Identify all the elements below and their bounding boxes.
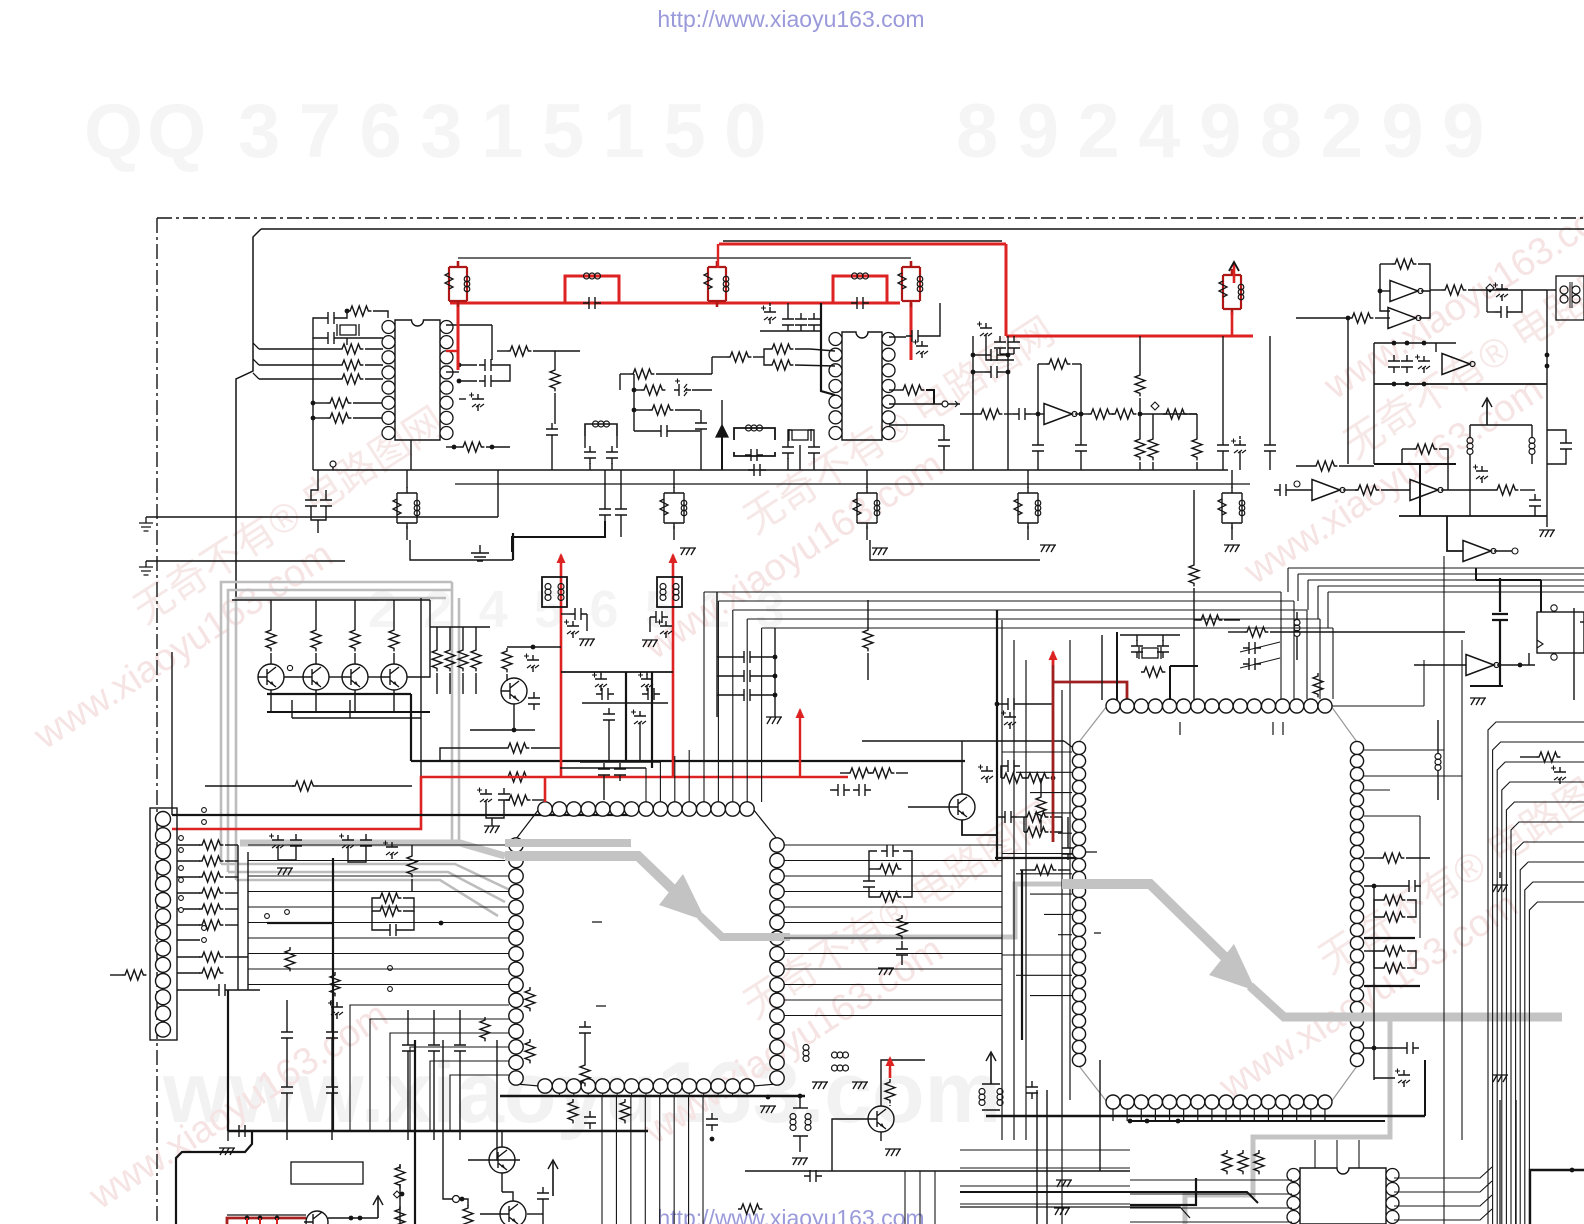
resistor R35: [445, 647, 455, 671]
wire stub: [1140, 1109, 1142, 1121]
wire: [1380, 264, 1390, 311]
capacitor C38: [1529, 494, 1541, 512]
resistor R23: [1355, 485, 1379, 495]
wire: [1534, 512, 1536, 516]
wire: [1040, 778, 1042, 794]
wire bus vert: [1069, 640, 1071, 1100]
resistor R76: [480, 1017, 490, 1041]
wire bold vert3: [414, 1040, 416, 1224]
wire dip right: [1394, 1181, 1492, 1192]
junction: [490, 445, 495, 450]
filter FL7: [406, 487, 408, 529]
wire stub: [674, 756, 676, 802]
wire: [1020, 869, 1032, 871]
junction: [1138, 412, 1143, 417]
junction: [457, 379, 462, 384]
junction: [349, 1216, 354, 1221]
inductor L17: [997, 1089, 1003, 1095]
capacitor C86: [384, 924, 402, 936]
wire fan: [1525, 882, 1584, 1224]
jumper contact: [388, 966, 393, 971]
junction: [275, 1216, 280, 1221]
capacitor C44b: [738, 689, 756, 701]
capacitor C32c: [1234, 440, 1246, 457]
wire stub left U8: [1002, 853, 1072, 855]
wire stub: [1225, 1109, 1227, 1121]
wire stub: [1267, 1109, 1269, 1121]
wire: [1037, 457, 1039, 470]
transistor Q3: [303, 664, 329, 690]
wire bold: [267, 693, 411, 695]
wire: [411, 879, 413, 891]
wire: [353, 417, 383, 419]
wire bus: [248, 922, 509, 924]
wire bold vert: [1021, 870, 1023, 1040]
arrow red 2: [672, 555, 675, 569]
wire: [1499, 872, 1501, 878]
gray bus feed: [240, 843, 505, 856]
wire fan: [1497, 762, 1584, 1224]
wire: [531, 747, 560, 749]
filter FL13: [542, 577, 567, 607]
wire stub: [1112, 1109, 1114, 1121]
resistor R24b: [1163, 409, 1187, 419]
resistor R49: [199, 888, 223, 898]
junction: [1079, 412, 1084, 417]
jumper contact: [202, 808, 207, 813]
capacitor C33: [1495, 306, 1513, 318]
wire: [1469, 455, 1471, 516]
transistor Q6: [501, 678, 527, 704]
wire bus stair: [410, 1047, 509, 1132]
wire stub: [1324, 1109, 1326, 1121]
wire bold: [625, 672, 627, 761]
wire: [446, 446, 460, 448]
capacitor C52: [1002, 760, 1020, 772]
red stub U1 pin3: [446, 350, 459, 352]
jumper contact: [179, 878, 184, 883]
black over red bus: [227, 1214, 306, 1216]
wire: [1050, 817, 1062, 832]
wire: [315, 600, 317, 627]
wire: [943, 452, 945, 470]
capacitor C3: [583, 297, 601, 309]
resistor R31: [311, 627, 321, 651]
wire: [600, 672, 602, 675]
wire: [1407, 951, 1416, 968]
wire bus: [248, 984, 509, 986]
junction: [345, 309, 350, 314]
wire bus down: [1332, 628, 1334, 699]
wire: [1374, 383, 1547, 385]
wire: [1470, 424, 1532, 426]
wire vert: [1036, 1090, 1038, 1224]
wire: [1139, 462, 1141, 470]
resistor R13: [630, 369, 654, 379]
filter FL11: [1027, 487, 1029, 529]
wire bus: [248, 937, 509, 939]
wire: [177, 844, 200, 846]
wire: [608, 726, 610, 761]
wire: [1080, 457, 1082, 470]
junction: [1405, 382, 1410, 387]
wire: [926, 390, 934, 404]
wire bold: [267, 922, 333, 924]
diode D1: [716, 425, 728, 437]
wire: [620, 521, 622, 537]
wire: [1375, 317, 1390, 319]
wire stub right: [784, 891, 1002, 893]
capacitor C62: [1243, 642, 1261, 654]
wire stub: [1282, 1109, 1284, 1121]
wire stub left U8: [1002, 954, 1072, 956]
capacitor C74: [331, 1002, 343, 1019]
resistor R67: [1313, 673, 1323, 697]
wire: [227, 1131, 229, 1141]
capacitor C23: [305, 494, 317, 512]
capacitor C26b: [615, 503, 627, 521]
wire: [1489, 290, 1491, 292]
wire: [901, 941, 903, 943]
capacitor C75: [454, 1039, 466, 1057]
wire: [270, 653, 272, 664]
wire: [903, 851, 912, 897]
wire: [756, 694, 775, 696]
wire: [1231, 470, 1233, 488]
wire: [1407, 900, 1416, 917]
wire stub dip: [1358, 1140, 1360, 1168]
ground: [1224, 545, 1240, 552]
wire: [527, 1213, 543, 1215]
gray arrow inside U7: [505, 839, 631, 847]
wire: [225, 908, 238, 910]
capacitor C54: [1062, 842, 1074, 860]
wire: [225, 844, 238, 846]
transformer T1: [1556, 276, 1584, 320]
resistor R84: [1238, 1150, 1248, 1174]
wire bus: [248, 891, 509, 893]
capacitor C30: [1075, 439, 1087, 457]
capacitor C27: [985, 366, 1003, 378]
wire: [1194, 619, 1198, 621]
red riser 3: [799, 722, 801, 777]
wire: [1546, 290, 1548, 527]
wire bus right: [718, 600, 1294, 602]
wire: [449, 673, 451, 694]
wire: [1381, 489, 1410, 491]
wire bus: [248, 906, 509, 908]
capacitor C32: [1496, 284, 1508, 301]
wire bus up: [746, 619, 748, 802]
junction: [798, 1094, 803, 1099]
wire bus vert: [1013, 640, 1015, 1140]
wire: [1270, 631, 1465, 633]
wire stub right: [784, 844, 1002, 846]
wire bus down: [1293, 601, 1295, 699]
resistor R20b: [1112, 409, 1136, 419]
wire: [497, 470, 499, 517]
wire: [799, 1096, 801, 1108]
arrow red 3: [1052, 652, 1055, 665]
wire: [247, 852, 249, 990]
capacitor C87: [537, 1187, 549, 1205]
capacitor C68: [1398, 1070, 1410, 1087]
ground left: [139, 517, 153, 531]
wire: [446, 371, 459, 373]
wire bus bottom: [960, 1203, 1130, 1205]
wire: [982, 1083, 1000, 1085]
wire: [901, 961, 903, 965]
label box: [291, 1162, 363, 1184]
wire: [1112, 413, 1114, 415]
capacitor C81: [584, 1111, 596, 1129]
resistor R59: [1025, 773, 1049, 783]
wire: [840, 772, 847, 774]
wire: [332, 467, 334, 470]
resistor R58: [1001, 773, 1025, 783]
ground: [1470, 698, 1486, 705]
wire: [1531, 455, 1533, 464]
wire: [1528, 653, 1530, 665]
wire: [365, 378, 383, 380]
wire: [1031, 413, 1044, 415]
capacitor C6: [782, 313, 794, 331]
wire stub left U8: [1058, 832, 1072, 834]
node open: [1294, 481, 1300, 487]
wire stair: [960, 1207, 1190, 1218]
resistor R18: [1046, 359, 1070, 369]
wire red: [719, 244, 1253, 336]
wire: [870, 540, 1040, 560]
wire: [480, 1213, 500, 1215]
capacitor C1: [322, 312, 340, 324]
wire bold: [1540, 580, 1542, 612]
wire red main: [450, 303, 911, 370]
wire bus: [248, 968, 509, 970]
wire: [497, 365, 510, 381]
ground: [760, 1106, 776, 1113]
capacitor C85: [1026, 1081, 1038, 1099]
wire corner: [236, 229, 261, 600]
wire: [561, 671, 673, 673]
junction: [512, 728, 517, 733]
wire: [459, 1057, 461, 1140]
wire: [110, 974, 122, 976]
ground: [219, 1148, 235, 1155]
wire: [756, 675, 775, 677]
resistor R53: [199, 968, 223, 978]
junction: [1545, 364, 1550, 369]
wire stub right: [784, 968, 1002, 970]
capacitor C50: [213, 984, 231, 996]
op-amp U5C: [1410, 480, 1438, 501]
wire bus: [248, 953, 509, 955]
wire input: [259, 348, 339, 350]
wire: [512, 533, 514, 560]
resistor R1: [339, 344, 363, 354]
wire: [1296, 637, 1298, 660]
wire: [1547, 455, 1566, 464]
wire: [468, 1159, 489, 1161]
capacitor C42b: [738, 651, 756, 663]
gray bus bundle: [221, 582, 459, 880]
wire bold: [1364, 937, 1415, 939]
wire: [717, 656, 738, 658]
resistor R80: [568, 1099, 578, 1123]
wire: [1152, 414, 1154, 436]
junction: [995, 702, 1000, 707]
junction: [1372, 1046, 1377, 1051]
wire: [1419, 291, 1430, 318]
resistor R39: [505, 772, 529, 782]
wire: [1419, 816, 1421, 938]
IC U1: [382, 320, 453, 440]
filter FL9: [673, 487, 675, 529]
wire: [316, 785, 412, 787]
wire bold: [411, 760, 965, 762]
net red bus upper: [723, 240, 1002, 242]
junction: [258, 1216, 263, 1221]
capacitor C25b: [599, 503, 611, 521]
wire down long: [601, 1096, 603, 1224]
wire: [205, 785, 294, 787]
wire stub: [1253, 1109, 1255, 1121]
wire: [1017, 816, 1024, 818]
wire stub: [1197, 1109, 1199, 1121]
wire bus bottom: [960, 1149, 1130, 1151]
wire vert: [1046, 1090, 1048, 1224]
wire: [177, 956, 200, 958]
wire bus bottom: [960, 1185, 1130, 1187]
filter FL3: [910, 261, 913, 307]
wire red riser: [1231, 312, 1234, 336]
wire: [1380, 290, 1390, 292]
wire: [459, 380, 477, 382]
wire stub dip: [1314, 1140, 1316, 1168]
wire: [973, 354, 985, 356]
resistor R54: [122, 970, 146, 980]
resistor R19b: [1088, 409, 1112, 419]
junction: [400, 1192, 405, 1197]
wire: [616, 436, 618, 448]
wire: [225, 876, 238, 878]
filter box FL8b: [585, 424, 617, 436]
wire: [813, 458, 815, 470]
wire stub left U8: [1030, 893, 1072, 895]
wire: [1224, 619, 1240, 621]
junction: [1372, 884, 1377, 889]
wire: [584, 1039, 586, 1062]
inductor L3: [545, 584, 551, 590]
wire: [177, 989, 213, 991]
wire: [313, 402, 327, 404]
wire: [346, 338, 348, 345]
resistor R63b: [847, 768, 871, 778]
wire stub left U8: [1002, 751, 1072, 753]
wire: [1373, 917, 1375, 1080]
wire: [462, 1199, 468, 1206]
resistor R15: [649, 405, 673, 415]
wire: [787, 458, 789, 470]
capacitor C39: [1476, 466, 1488, 483]
wire stub down: [602, 1093, 604, 1096]
wire: [1037, 364, 1039, 414]
junction: [1570, 1168, 1575, 1173]
wire: [764, 349, 769, 365]
wire: [1373, 343, 1375, 464]
svg-text:http://www.xiaoyu163.com: http://www.xiaoyu163.com: [657, 1205, 924, 1224]
wire: [406, 526, 408, 540]
resistor R38: [505, 743, 529, 753]
wire: [1004, 413, 1013, 415]
resistor R52: [199, 952, 223, 962]
wire: [1038, 363, 1046, 365]
wire: [1364, 885, 1403, 887]
wire: [1437, 771, 1439, 800]
IC U9 flip-flop: [1537, 612, 1584, 653]
wire: [446, 324, 492, 326]
resistor R69: [1380, 853, 1404, 863]
capacitor C41: [598, 763, 610, 781]
ground: [852, 1082, 868, 1089]
wire: [1051, 777, 1053, 779]
wire: [1169, 666, 1171, 700]
wire: [1406, 857, 1430, 859]
wire: [866, 470, 868, 488]
capacitor C46: [290, 834, 302, 852]
wire: [365, 348, 383, 350]
capacitor C64 bold: [1492, 578, 1508, 686]
resistor R16: [900, 385, 924, 395]
jumper contact: [179, 896, 184, 901]
wire bus 470: [313, 469, 1228, 471]
arrow red 1: [560, 555, 563, 569]
wire: [795, 349, 835, 351]
junction: [1422, 382, 1427, 387]
wire: [1025, 777, 1027, 779]
wire: [430, 626, 490, 628]
wire: [611, 463, 613, 470]
wire bold: [1364, 985, 1420, 987]
wire: [1437, 720, 1439, 753]
wire: [889, 424, 944, 426]
wire bus bend: [1317, 586, 1319, 619]
wire bold stair: [960, 1192, 1258, 1203]
capacitor C24b: [808, 441, 820, 459]
capacitor C10: [472, 394, 484, 411]
wire: [639, 728, 641, 761]
wire stub dip: [1336, 1140, 1338, 1168]
capacitor C53: [999, 811, 1017, 823]
capacitor C63: [1243, 658, 1261, 670]
wire: [721, 437, 723, 470]
capacitor C48: [360, 834, 372, 852]
wire: [475, 627, 477, 647]
wire: [410, 440, 412, 470]
wire: [634, 430, 655, 432]
wire: [924, 303, 940, 336]
wire: [459, 398, 466, 400]
wire: [340, 311, 347, 318]
resistor R71: [1381, 912, 1405, 922]
wire: [1222, 336, 1224, 439]
wire: [365, 364, 383, 366]
wire stub down: [674, 1093, 676, 1096]
inductor L11: [790, 1114, 796, 1120]
wire: [1136, 635, 1138, 641]
wire stub left U8: [1016, 974, 1072, 976]
wire bus vert: [1001, 620, 1003, 1140]
